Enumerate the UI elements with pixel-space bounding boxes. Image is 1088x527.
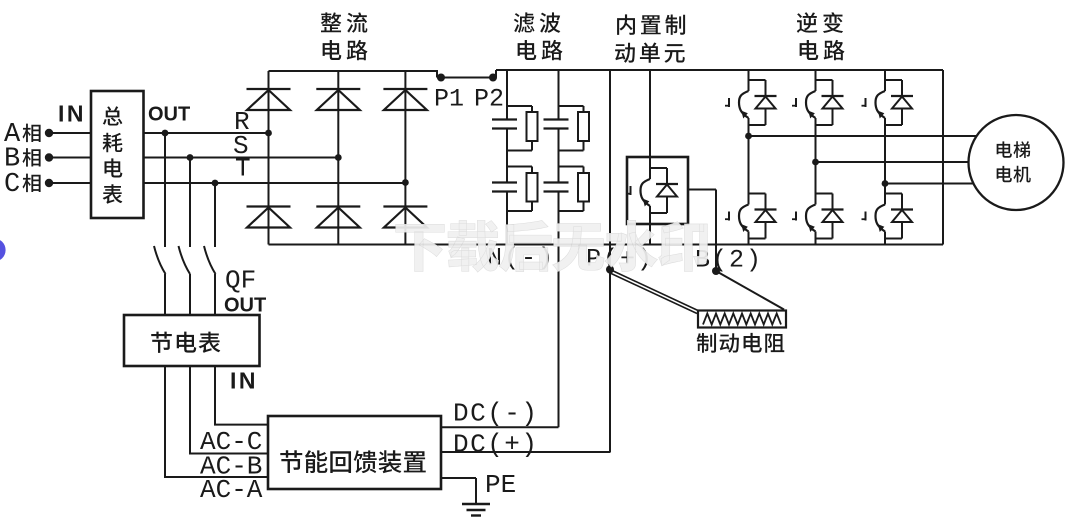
wire leg 3 emitter to N bus [884,239,886,245]
wire PE [441,478,476,503]
label OUT (saving meter) [224,295,266,317]
diode D4 [247,207,291,228]
wire brake leg from top rail [649,70,651,168]
svg-text:OUT: OUT [148,104,190,126]
wire rectifier leg 3 [404,71,406,245]
label DC(-) [453,399,539,429]
wire rectifier top rail [269,70,438,78]
wire leg 1 emitter to N bus [748,239,750,245]
wire P1-P2 link [437,77,496,79]
junction T to rectifier [402,179,409,186]
wire AC-B from meter [189,366,268,454]
label OUT (meter output) [148,104,190,126]
transistor Q3 upper IGBT with diode [862,80,914,125]
meter total energy meter 总耗电表 [91,91,144,218]
svg-text:P2: P2 [474,85,504,114]
node P(+) terminal [586,245,654,274]
wire N bus bottom rail [269,244,944,246]
node P2 [474,74,504,114]
node B(2) terminal [695,245,763,276]
watermark [396,220,708,272]
wire phase 3 junction to lower IGBT [884,184,886,205]
junction R to rectifier [265,130,272,137]
wire C-phase to meter [49,182,91,184]
junction tap B to QF [187,154,194,247]
wire motor phase V [816,161,970,163]
wire inverter leg 3 upper [884,70,886,80]
diode D1 [247,89,291,110]
label AC-C [200,427,262,457]
wire filter column 2 [558,70,560,243]
node N(-) terminal [487,244,555,273]
wire AC-C from meter [214,366,268,425]
capacitor C1 [492,120,517,129]
diode D2 [316,89,360,110]
label IN (saving meter) [230,368,258,394]
capacitor C3 [544,120,569,129]
box energy feedback device 节能回馈装置 [268,416,441,489]
diode D5 [316,207,360,228]
label AC-A [200,475,263,505]
svg-text:AC-A: AC-A [200,475,263,505]
resistor R2 (discharge) [507,167,538,212]
label T [235,154,251,184]
wire brake output to B terminal [688,190,716,245]
transistor Q4 lower IGBT with diode [725,194,777,239]
junction tap A to QF [162,130,169,247]
svg-text:DC(-): DC(-) [453,399,539,429]
wire rectifier leg 1 [268,71,270,245]
wire DC(+) feedback to P bus [441,451,611,453]
label R [234,107,250,137]
svg-text:OUT: OUT [224,295,266,317]
box brake unit [627,157,688,224]
meter energy saving meter 节电表 [124,315,260,366]
wire P bus feed down (P terminal / DC+) [609,70,611,452]
label built-in brake unit 内置制动单元 [615,14,685,62]
wire leg 2 to phase junction [815,125,817,162]
svg-text:DC(+): DC(+) [453,430,539,460]
resistor R3 (discharge) [559,106,590,151]
transistor Q5 lower IGBT with diode [792,194,844,239]
label IN (meter input) [58,101,86,127]
breaker QF pole 1 [154,246,166,315]
wire inverter leg 2 upper [815,70,817,80]
svg-text:IN: IN [58,101,86,127]
capacitor C2 [492,183,517,192]
label AC-B [200,452,262,482]
wire brake emitter to N bus [649,213,651,245]
wire filter column 1 [506,70,508,245]
resistor braking resistor 制动电阻 [697,311,786,353]
wire leg 1 to phase junction [748,125,750,136]
wire B-phase to meter [49,157,91,159]
junction phase 3 output [882,180,889,187]
ground PE earth symbol [462,504,490,516]
wire DC+ top rail [496,70,943,78]
wire S line B-phase to rectifier [144,157,339,159]
wire rectifier leg 2 [337,71,339,245]
junction phase 1 output [745,133,752,140]
decoration blue dot (page artifact) [0,238,6,261]
svg-text:PE: PE [485,470,516,500]
svg-text:T: T [235,154,251,184]
label PE [485,470,516,500]
label rectifier circuit 整流电路 [321,12,368,60]
wire T line C-phase to rectifier [144,182,406,184]
wire inverter leg 1 upper [748,70,750,80]
breaker QF pole 2 [179,246,191,315]
node P1 [434,74,464,114]
label S [233,131,249,161]
svg-text:C: C [4,170,20,200]
node A-phase input terminal A相 [4,120,53,150]
node C-phase input terminal C相 [4,170,53,200]
wire B(2) to braking resistor [716,271,784,310]
wire A-phase to meter [49,132,91,134]
wire phase 1 junction to lower IGBT [748,136,750,205]
junction phase 2 output [812,159,819,166]
svg-text:P1: P1 [434,85,464,114]
wire motor phase W [885,183,974,185]
capacitor C4 [544,183,569,192]
wire leg 3 to phase junction [884,125,886,184]
wire leg 2 emitter to N bus [815,239,817,245]
breaker QF pole 3 [204,246,216,315]
transistor Q6 lower IGBT with diode [862,194,914,239]
wire P(+) to braking resistor (double) [609,270,698,314]
motor elevator motor 电梯电机 [969,115,1064,210]
junction S to rectifier [335,154,342,161]
node B-phase input terminal B相 [4,145,53,175]
wire inverter right edge [942,70,944,245]
resistor R1 (discharge) [507,106,538,151]
wire R line A-phase to rectifier [144,132,269,134]
wire phase 2 junction to lower IGBT [815,162,817,205]
diode D3 [383,89,427,110]
svg-text:IN: IN [230,368,258,394]
label inverter circuit 逆变电路 [797,12,845,60]
label filter circuit 滤波电路 [514,12,563,60]
label DC(+) [453,430,539,460]
junction tap C to QF [212,180,219,247]
wire AC-A from meter [164,366,268,477]
svg-text:QF: QF [225,266,256,296]
resistor R4 (discharge) [559,167,590,212]
diode D6 [383,207,427,228]
wire DC(-) feedback to N bus [441,243,559,427]
label QF [225,266,256,296]
transistor Q2 upper IGBT with diode [792,80,844,125]
transistor Q1 upper IGBT with diode [725,80,777,125]
transistor Q7 brake IGBT with diode D7 [627,168,679,213]
wire motor phase U [749,135,977,137]
